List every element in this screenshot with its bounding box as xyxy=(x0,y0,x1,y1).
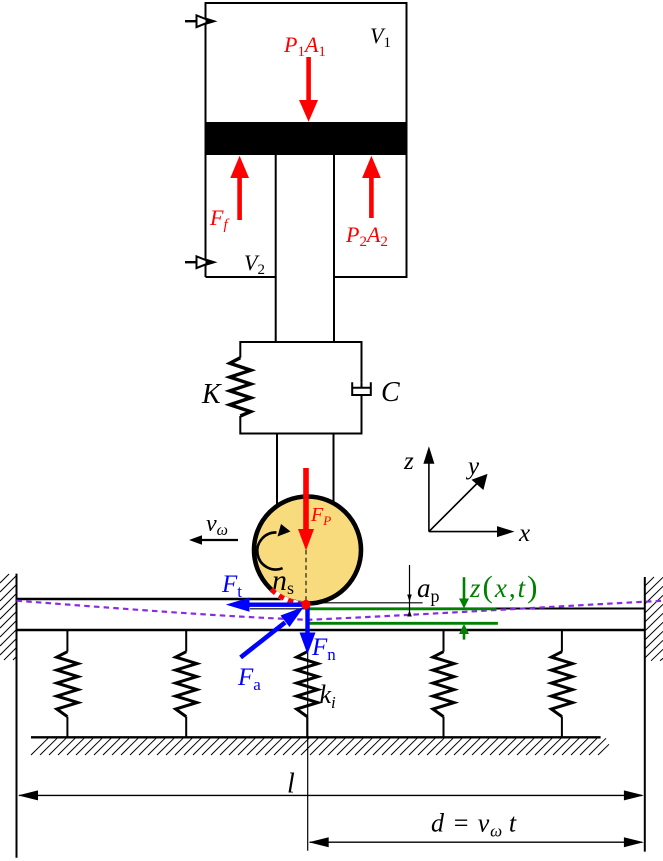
piston (black plate) xyxy=(205,122,408,155)
svg-text:x: x xyxy=(518,520,530,547)
dimension d line xyxy=(310,841,642,843)
dimension l line xyxy=(19,794,642,796)
tool center dashed axis xyxy=(305,550,307,604)
cylinder body V1/V2 outline xyxy=(206,3,407,277)
foundation spring 1 xyxy=(66,630,68,737)
contact point red dot xyxy=(301,600,310,609)
cutting edge red dashed arc xyxy=(271,590,304,604)
right wall hatching xyxy=(645,577,663,661)
svg-text:l: l xyxy=(287,769,295,800)
center extension line from contact xyxy=(307,630,309,851)
x axis arrowhead xyxy=(497,526,515,537)
svg-text:C: C xyxy=(381,377,400,408)
force arrow Fn xyxy=(300,606,316,654)
force arrow Ft xyxy=(226,598,305,612)
piston rod upper xyxy=(276,155,334,342)
y axis arrowhead xyxy=(472,474,488,490)
svg-text:V2: V2 xyxy=(244,250,265,278)
svg-text:Fa: Fa xyxy=(237,664,261,694)
spring K xyxy=(230,358,251,416)
beam top surface (machined, right) xyxy=(308,608,645,610)
foundation spring 4 xyxy=(443,630,445,737)
feed velocity arrow v_omega xyxy=(189,535,238,544)
port arrow top xyxy=(185,15,218,27)
deflection curve (dashed purple) xyxy=(17,601,663,620)
force arrow FP xyxy=(298,468,314,551)
left wall line xyxy=(16,574,18,858)
machined surface green line xyxy=(309,607,497,610)
ground hatching xyxy=(31,738,609,755)
surface extension line right of tool xyxy=(309,602,423,604)
foundation spring 3 (center) xyxy=(306,630,308,737)
force arrow Fa xyxy=(239,607,304,660)
svg-text:y: y xyxy=(465,453,480,480)
beam bottom line xyxy=(17,629,645,631)
svg-text:d = vω t: d = vω t xyxy=(431,809,517,841)
svg-text:V1: V1 xyxy=(370,23,391,51)
svg-text:z(x,t): z(x,t) xyxy=(469,569,539,604)
roller (tool ball) xyxy=(254,497,361,604)
svg-text:ap: ap xyxy=(417,573,440,606)
right wall line xyxy=(644,577,646,852)
surface extension line left of tool xyxy=(250,608,309,610)
coordinate axes xyxy=(429,460,503,532)
svg-text:Ft: Ft xyxy=(221,571,242,601)
beam top surface (unmachined, left) xyxy=(17,598,284,600)
foundation spring 5 xyxy=(561,630,563,737)
deflected surface green line xyxy=(307,622,498,625)
spring-damper box xyxy=(240,342,361,434)
svg-text:vω: vω xyxy=(206,511,228,539)
foundation spring 2 xyxy=(185,630,187,737)
svg-text:Ff: Ff xyxy=(209,205,229,233)
spindle speed arc ns xyxy=(257,532,282,569)
svg-text:ki: ki xyxy=(320,680,337,712)
port arrow bottom xyxy=(185,256,218,268)
svg-text:P2A2: P2A2 xyxy=(345,222,388,250)
z(x,t) dimension arrows xyxy=(463,577,466,639)
svg-text:P1A1: P1A1 xyxy=(283,32,326,60)
left wall hatching xyxy=(0,574,17,660)
svg-text:Fn: Fn xyxy=(311,634,336,664)
z axis arrowhead xyxy=(423,446,434,464)
ground line xyxy=(31,736,601,738)
ap dimension line xyxy=(409,565,411,616)
force arrow P2A2 xyxy=(362,156,381,218)
piston rod lower xyxy=(277,434,334,509)
svg-text:z: z xyxy=(403,448,414,475)
force arrow P1A1 xyxy=(299,57,318,122)
svg-text:K: K xyxy=(201,379,222,410)
force arrow Ff xyxy=(230,156,249,220)
damper C xyxy=(352,382,371,395)
